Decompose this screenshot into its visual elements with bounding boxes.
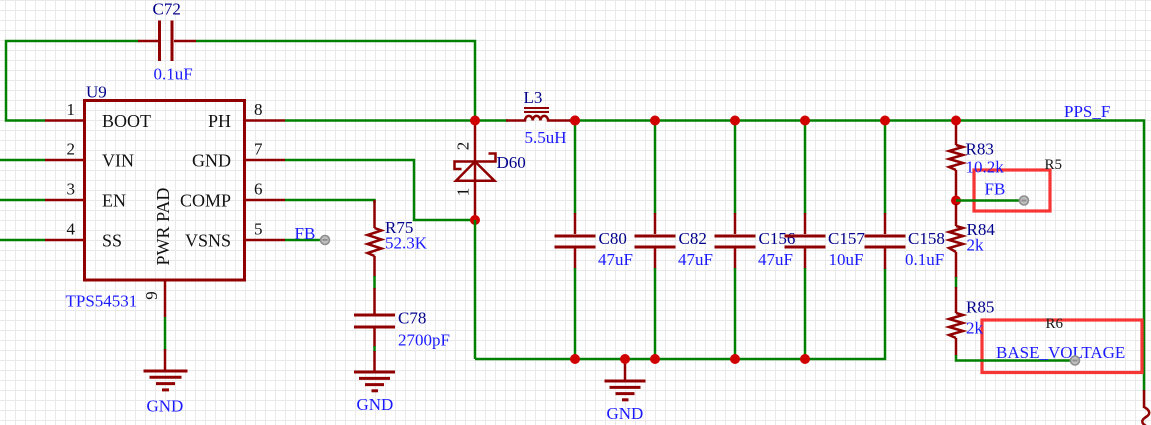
wire pin9 to GND	[164, 317, 167, 350]
designator R75	[385, 218, 413, 237]
wire diode anode to ground bus	[474, 220, 477, 359]
junction C82 top	[650, 116, 660, 126]
PWR PAD text	[153, 188, 173, 266]
svg-text:R6: R6	[1046, 316, 1064, 332]
ground GND under U9	[144, 349, 188, 416]
value 0.1uF of C72	[154, 65, 193, 84]
designator R83	[966, 140, 994, 159]
junction PH node top	[470, 116, 480, 126]
junction ground tap	[620, 354, 630, 364]
svg-text:GND: GND	[192, 151, 231, 171]
designator R84	[967, 220, 996, 239]
pin 3 EN	[45, 180, 126, 211]
wire COMP to R75	[285, 200, 375, 203]
inductor L3	[506, 108, 570, 121]
svg-text:47uF: 47uF	[598, 250, 633, 269]
wire EN left	[0, 199, 45, 202]
svg-text:C156: C156	[759, 229, 796, 248]
designator C72	[153, 0, 181, 19]
svg-text:D60: D60	[497, 153, 526, 172]
designator D60	[497, 153, 526, 172]
svg-text:4: 4	[67, 220, 76, 239]
diode D60 (schottky)	[454, 125, 496, 217]
svg-text:PWR PAD: PWR PAD	[153, 188, 173, 266]
value 52.3K	[385, 234, 428, 253]
net label FB at pin 5	[295, 224, 330, 245]
svg-text:0.1uF: 0.1uF	[905, 250, 944, 269]
ground GND power port mid	[605, 361, 646, 423]
junction C156 bottom	[730, 354, 740, 364]
off sheet stub bottom right	[1142, 390, 1149, 425]
svg-text:5: 5	[254, 220, 263, 239]
value 10.2k	[966, 158, 1005, 177]
pin 8 PH	[208, 100, 285, 131]
svg-text:COMP: COMP	[180, 191, 231, 211]
svg-text:C78: C78	[398, 309, 426, 328]
capacitor C78	[354, 288, 395, 347]
ground bus bottom	[475, 268, 885, 359]
value 47uF of C82	[678, 250, 713, 269]
pin 6 COMP	[180, 180, 285, 211]
svg-text:U9: U9	[86, 83, 107, 102]
svg-text:8: 8	[254, 100, 263, 119]
svg-text:SS: SS	[102, 231, 122, 251]
junction C82 bottom	[650, 354, 660, 364]
designator L3	[524, 88, 543, 107]
wire R85 to BASE_VOLTAGE	[956, 355, 1075, 361]
svg-text:47uF: 47uF	[758, 250, 793, 269]
designator C158	[908, 229, 945, 248]
junction L3 out	[570, 116, 580, 126]
value 0.1uF of C158	[905, 250, 944, 269]
wire SS left	[0, 239, 45, 242]
svg-text:10uF: 10uF	[829, 250, 864, 269]
value TPS54531	[66, 292, 138, 311]
value 47uF of C80	[598, 250, 633, 269]
wire R84 to R85	[955, 277, 958, 288]
svg-text:BOOT: BOOT	[102, 111, 151, 131]
capacitor C156	[715, 121, 756, 360]
net label BASE_VOLTAGE	[996, 343, 1125, 365]
resistor R85	[949, 287, 963, 356]
junction C156 top	[730, 116, 740, 126]
svg-text:C72: C72	[153, 0, 181, 19]
svg-text:9: 9	[142, 291, 161, 300]
pin 2 VIN	[45, 140, 134, 171]
wire FB node to label	[956, 199, 1021, 202]
designator C156	[759, 229, 796, 248]
net label PPS_F	[1064, 102, 1110, 121]
value 10uF of C157	[829, 250, 864, 269]
svg-text:GND: GND	[607, 404, 644, 423]
capacitor C82	[635, 121, 676, 360]
wire PH to L3	[285, 119, 508, 122]
designator C82	[679, 229, 707, 248]
value 2700pF	[398, 331, 450, 350]
value 5.5uH	[525, 128, 567, 147]
svg-text:VIN: VIN	[102, 151, 134, 171]
net label FB right	[985, 180, 1029, 206]
svg-text:R5: R5	[1045, 157, 1063, 173]
pin 4 SS	[45, 220, 122, 251]
capacitor C80	[555, 121, 596, 360]
svg-text:PPS_F: PPS_F	[1064, 102, 1110, 121]
svg-text:1: 1	[67, 100, 76, 119]
wire VIN left	[0, 159, 45, 162]
value 47uF of C156	[758, 250, 793, 269]
svg-text:TPS54531: TPS54531	[66, 292, 138, 311]
svg-text:52.3K: 52.3K	[385, 234, 428, 253]
pin 7 GND	[192, 140, 285, 171]
junction C80 top	[570, 116, 580, 126]
svg-text:C80: C80	[599, 229, 627, 248]
svg-text:47uF: 47uF	[678, 250, 713, 269]
junction C158 top	[880, 116, 890, 126]
svg-text:10.2k: 10.2k	[966, 158, 1005, 177]
wire L3 to right edge	[569, 121, 1144, 392]
selection box R6	[982, 320, 1142, 373]
label R6	[1046, 316, 1064, 332]
junction C80 bottom	[570, 354, 580, 364]
wire R75 to C78	[373, 276, 376, 289]
svg-text:6: 6	[254, 180, 263, 199]
svg-text:C158: C158	[908, 229, 945, 248]
resistor R75	[368, 200, 382, 277]
wire C72 to PH node	[196, 41, 475, 121]
designator C157	[828, 229, 865, 248]
svg-text:5.5uH: 5.5uH	[525, 128, 567, 147]
svg-text:R85: R85	[966, 298, 994, 317]
pin 1 BOOT	[45, 100, 151, 131]
svg-text:2: 2	[454, 142, 473, 151]
svg-text:0.1uF: 0.1uF	[154, 65, 193, 84]
designator C78	[398, 309, 426, 328]
svg-text:FB: FB	[295, 224, 316, 243]
designator U9	[86, 83, 107, 102]
designator C80	[599, 229, 627, 248]
svg-text:3: 3	[67, 180, 76, 199]
svg-text:GND: GND	[357, 395, 394, 414]
svg-text:2k: 2k	[966, 319, 984, 338]
capacitor C157	[785, 121, 826, 360]
svg-text:BASE_VOLTAGE: BASE_VOLTAGE	[996, 343, 1125, 362]
svg-text:2k: 2k	[967, 236, 985, 255]
svg-text:L3: L3	[524, 88, 543, 107]
wire VSNS to FB label	[285, 239, 322, 242]
wire GND pin to diode anode	[285, 160, 475, 220]
svg-text:EN: EN	[102, 191, 126, 211]
junction FB node	[951, 196, 961, 206]
junction C157 bottom	[800, 354, 810, 364]
pin 9 PWR PAD stub	[142, 280, 165, 317]
value 2k of R84	[967, 236, 985, 255]
svg-text:2700pF: 2700pF	[398, 331, 450, 350]
junction diode anode	[470, 215, 480, 225]
capacitor C72	[138, 21, 196, 62]
resistor R84	[949, 204, 963, 278]
pin 5 VSNS	[185, 220, 285, 251]
capacitor C158	[865, 121, 906, 270]
resistor R83	[949, 123, 963, 197]
svg-text:VSNS: VSNS	[185, 231, 231, 251]
svg-text:1: 1	[454, 188, 473, 197]
value 2k of R85	[966, 319, 984, 338]
svg-text:FB: FB	[985, 180, 1006, 199]
label R5	[1045, 157, 1063, 173]
wire C78 to GND	[373, 346, 376, 352]
ground GND under C78	[354, 351, 395, 414]
junction C157 top	[800, 116, 810, 126]
designator R85	[966, 298, 994, 317]
svg-text:R83: R83	[966, 140, 994, 159]
svg-text:PH: PH	[208, 111, 231, 131]
svg-text:C82: C82	[679, 229, 707, 248]
junction R83 top	[951, 116, 961, 126]
selection box R5	[974, 170, 1050, 211]
svg-text:GND: GND	[147, 397, 184, 416]
svg-text:C157: C157	[828, 229, 865, 248]
svg-text:2: 2	[67, 140, 76, 159]
svg-text:7: 7	[254, 140, 263, 159]
wire BOOT loop left	[6, 41, 139, 121]
IC U9 body	[85, 101, 245, 281]
